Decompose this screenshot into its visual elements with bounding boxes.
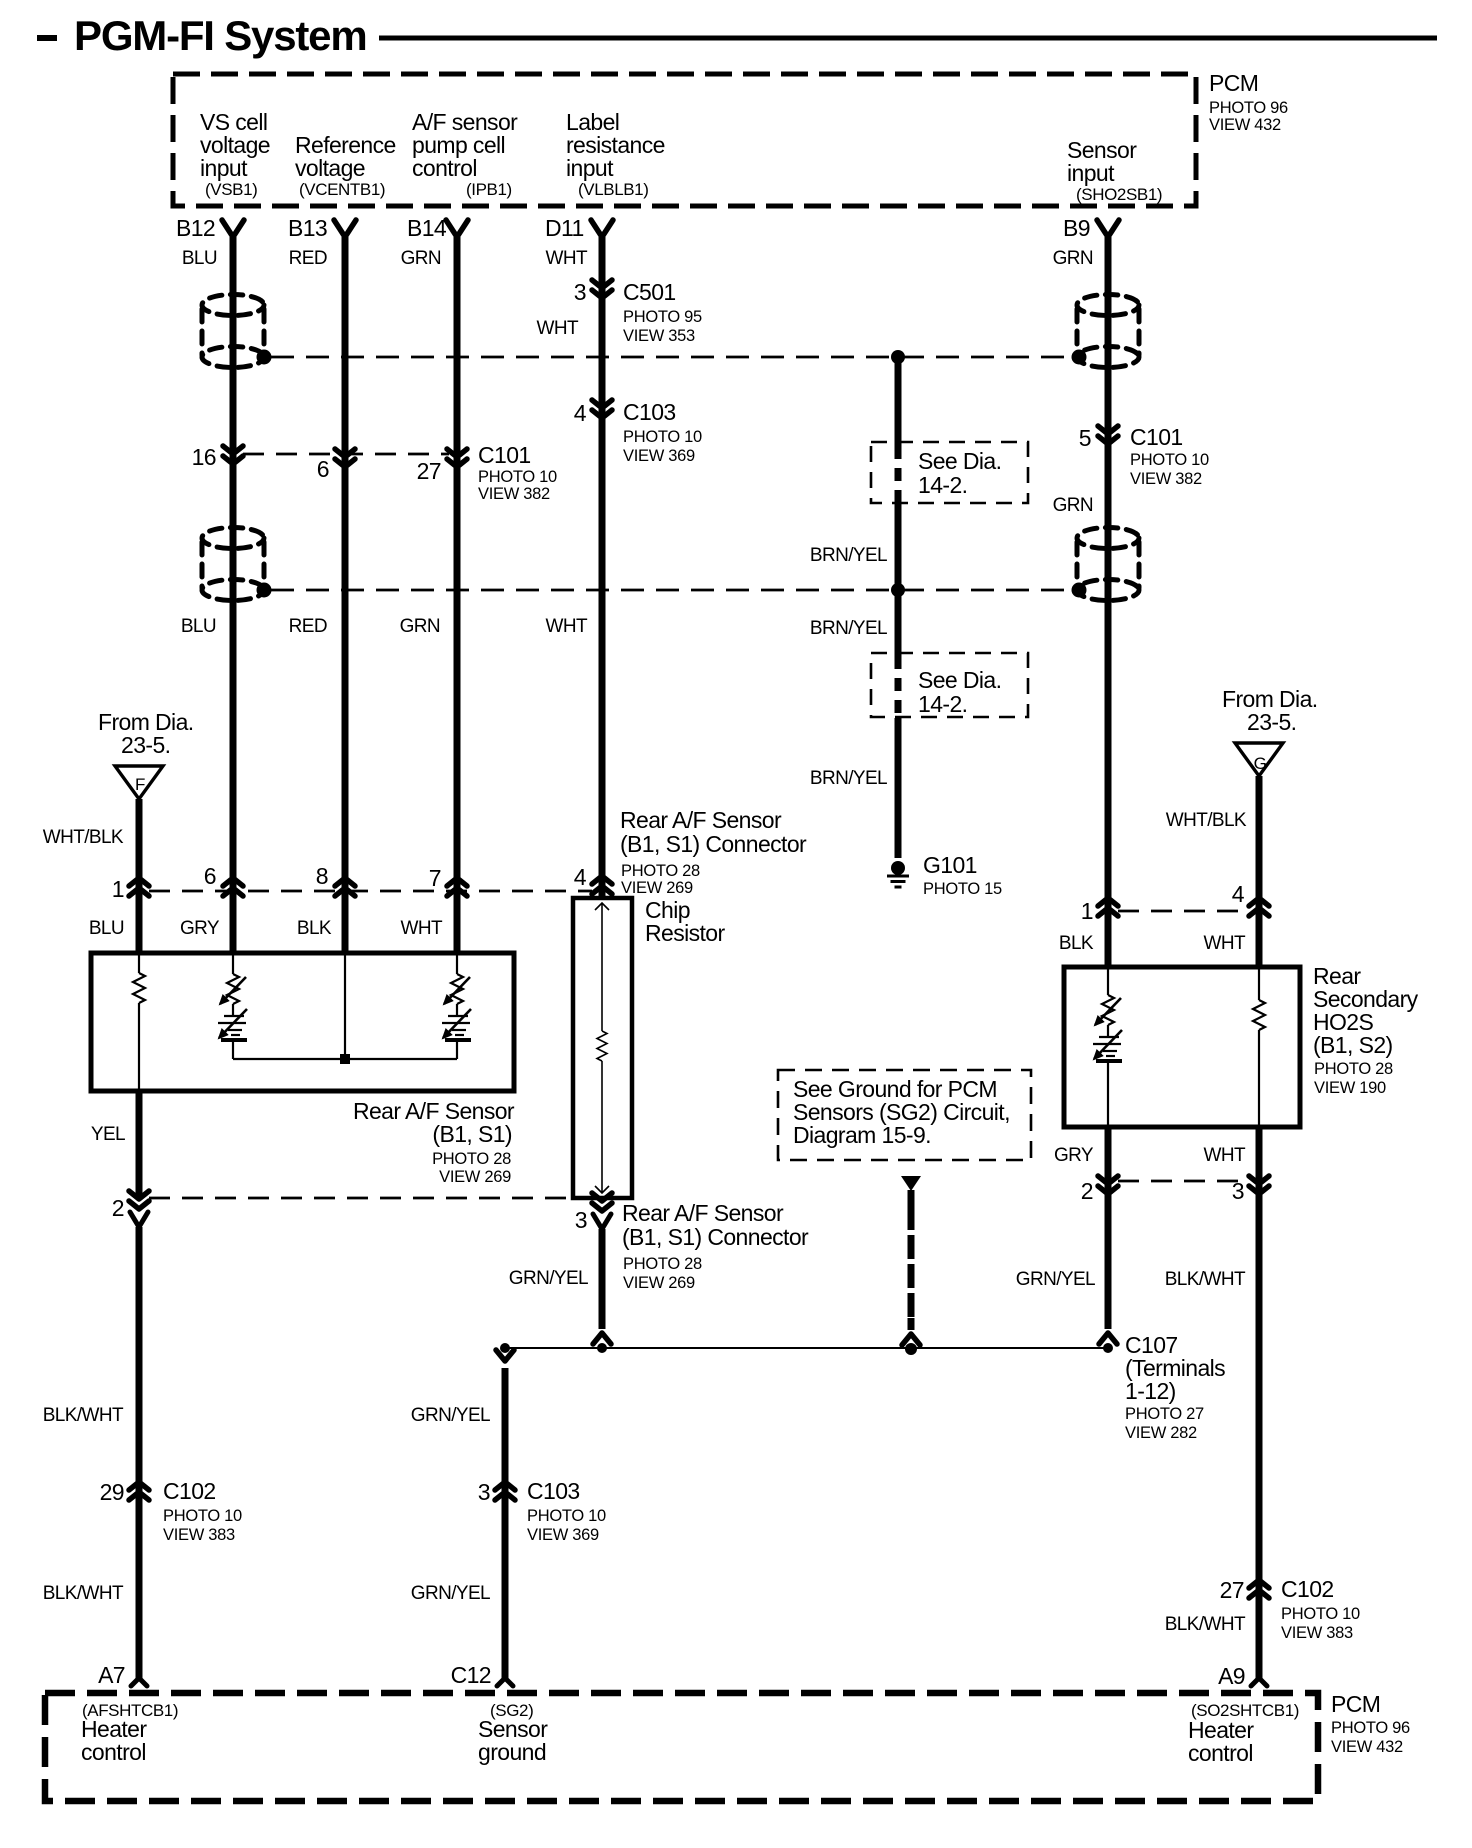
- svg-text:23-5.: 23-5.: [1247, 709, 1296, 735]
- connector pin 7: [429, 865, 467, 896]
- svg-text:16: 16: [192, 444, 216, 470]
- wire B13 RED (PCM to sensor): [342, 237, 349, 953]
- svg-text:BLK/WHT: BLK/WHT: [1165, 1269, 1246, 1290]
- svg-text:1: 1: [1081, 898, 1093, 924]
- wire B14 GRN (PCM to sensor): [454, 237, 461, 953]
- svg-text:C12: C12: [451, 1662, 491, 1688]
- junction node (sensor ground drop): [500, 1343, 510, 1353]
- svg-text:RED: RED: [289, 248, 327, 269]
- svg-text:BLU: BLU: [181, 616, 216, 637]
- Rear A/F Sensor box: [91, 953, 514, 1091]
- chip resistor element: [595, 903, 609, 1193]
- svg-text:1: 1: [112, 876, 124, 902]
- svg-text:3: 3: [575, 1207, 587, 1233]
- svg-text:14-2.: 14-2.: [918, 472, 967, 498]
- PCM label (top right): [1209, 70, 1288, 134]
- Rear A/F Sensor connector dashed link (pins 2,3): [149, 1197, 592, 1200]
- svg-text:PHOTO 28: PHOTO 28: [432, 1150, 511, 1168]
- junction node (BRN/YEL tap lower): [891, 583, 905, 597]
- svg-text:VIEW 369: VIEW 369: [527, 1526, 599, 1544]
- svg-text:voltage: voltage: [295, 155, 365, 181]
- svg-text:(VLBLB1): (VLBLB1): [578, 180, 649, 199]
- connector C101 label: [478, 442, 557, 503]
- pin label VS cell voltage input (VSB1): [200, 109, 270, 199]
- svg-text:BLU: BLU: [182, 248, 217, 269]
- svg-text:PHOTO 10: PHOTO 10: [163, 1507, 242, 1525]
- svg-text:7: 7: [429, 865, 441, 891]
- svg-text:VIEW 190: VIEW 190: [1314, 1079, 1386, 1097]
- wire from F triangle: [136, 799, 143, 953]
- connector pin 8: [316, 863, 355, 896]
- pin label Reference voltage (VCENTB1): [295, 132, 396, 199]
- svg-text:PHOTO 28: PHOTO 28: [1314, 1060, 1393, 1078]
- HO2S connector dashed link (pins 1,4): [1118, 910, 1249, 913]
- SG2 reference arrow: [901, 1176, 921, 1191]
- svg-text:14-2.: 14-2.: [918, 691, 967, 717]
- connector C107 terminal (GRN/YEL from chip): [593, 1333, 611, 1344]
- connector pin 3 (HO2S): [1232, 1176, 1269, 1204]
- pin label Label resistance input (VLBLB1): [566, 109, 665, 199]
- svg-text:27: 27: [1220, 1577, 1244, 1603]
- svg-text:GRN/YEL: GRN/YEL: [411, 1405, 490, 1426]
- svg-text:YEL: YEL: [91, 1124, 125, 1145]
- svg-text:WHT: WHT: [1204, 1145, 1246, 1166]
- svg-text:PHOTO 10: PHOTO 10: [478, 468, 557, 486]
- svg-text:BLK/WHT: BLK/WHT: [43, 1405, 124, 1426]
- svg-text:WHT: WHT: [537, 318, 579, 339]
- connector C107 terminal (GRN/YEL HO2S): [1099, 1333, 1117, 1344]
- wire BLK/WHT (pin2 to A7): [136, 1227, 143, 1676]
- svg-text:ground: ground: [478, 1739, 546, 1765]
- svg-text:VIEW 282: VIEW 282: [1125, 1424, 1197, 1442]
- svg-text:BLK/WHT: BLK/WHT: [43, 1583, 124, 1604]
- svg-text:1-12): 1-12): [1125, 1378, 1176, 1404]
- connector C101 pin 16: [192, 444, 243, 470]
- svg-text:(SHO2SB1): (SHO2SB1): [1076, 185, 1162, 204]
- svg-text:GRN/YEL: GRN/YEL: [1016, 1269, 1095, 1290]
- pin label (SG2) Sensor ground: [478, 1701, 548, 1765]
- wire B12 BLU (PCM to sensor): [230, 237, 237, 953]
- svg-text:G101: G101: [923, 852, 977, 878]
- svg-text:WHT: WHT: [1204, 933, 1246, 954]
- pump cell (pin7 leg, variable resistor + cell): [442, 955, 471, 1059]
- svg-text:control: control: [81, 1739, 146, 1765]
- svg-text:27: 27: [417, 458, 441, 484]
- pin terminal B14: [446, 220, 468, 237]
- svg-text:BLU: BLU: [89, 918, 124, 939]
- Rear Secondary HO2S box: [1064, 967, 1300, 1127]
- noise suppressor cylinder (B12 upper): [202, 295, 272, 368]
- connector pin 6: [204, 863, 243, 896]
- svg-text:WHT/BLK: WHT/BLK: [43, 827, 124, 848]
- ground G101: [887, 861, 909, 887]
- wire from G triangle: [1256, 776, 1263, 967]
- svg-text:VIEW 383: VIEW 383: [1281, 1624, 1353, 1642]
- pin label (SO2SHTCB1) Heater control: [1188, 1701, 1299, 1766]
- svg-text:GRN: GRN: [401, 248, 441, 269]
- wire GRN/YEL (HO2S pin2 to C107): [1105, 1196, 1112, 1329]
- svg-text:C103: C103: [527, 1478, 580, 1504]
- svg-text:VIEW 382: VIEW 382: [1130, 470, 1202, 488]
- svg-text:GRY: GRY: [180, 918, 220, 939]
- connector C107 terminal (SG2): [902, 1334, 920, 1345]
- internal junction node: [340, 1054, 350, 1064]
- svg-text:PHOTO 10: PHOTO 10: [623, 428, 702, 446]
- svg-text:GRN: GRN: [400, 616, 440, 637]
- svg-text:F: F: [135, 775, 145, 794]
- SG2 dashed wire: [908, 1190, 915, 1330]
- svg-text:A7: A7: [98, 1662, 125, 1688]
- svg-text:VIEW 269: VIEW 269: [623, 1274, 695, 1292]
- svg-text:input: input: [200, 155, 248, 181]
- junction node (SG2 dashed): [905, 1343, 917, 1355]
- svg-text:2: 2: [1081, 1178, 1093, 1204]
- noise suppressor cylinder (B12 lower): [202, 528, 272, 601]
- svg-text:(B1, S1): (B1, S1): [432, 1121, 512, 1147]
- svg-text:WHT/BLK: WHT/BLK: [1166, 810, 1247, 831]
- Rear A/F Sensor (B1, S1) label: [353, 1098, 515, 1186]
- shield link dashed line (upper): [271, 356, 1072, 359]
- title rule: [379, 36, 1437, 41]
- svg-text:GRN: GRN: [1053, 495, 1093, 516]
- noise suppressor cylinder (B9 upper): [1072, 295, 1140, 368]
- svg-text:C501: C501: [623, 279, 676, 305]
- svg-text:PHOTO 95: PHOTO 95: [623, 308, 702, 326]
- See Dia. 14-2. box (lower): [871, 653, 1028, 717]
- svg-text:8: 8: [316, 863, 328, 889]
- wire GRN/YEL (C107 to C12): [502, 1368, 509, 1676]
- svg-text:PHOTO 96: PHOTO 96: [1209, 99, 1288, 117]
- svg-text:PHOTO 28: PHOTO 28: [621, 862, 700, 880]
- svg-text:GRN: GRN: [1053, 248, 1093, 269]
- svg-text:29: 29: [100, 1479, 124, 1505]
- svg-text:PHOTO 15: PHOTO 15: [923, 880, 1002, 898]
- connector C103 pin 4: [574, 399, 702, 465]
- svg-text:B13: B13: [288, 215, 327, 241]
- shield link dashed line (lower): [271, 589, 1072, 592]
- wire YEL (sensor to pin2): [136, 1091, 143, 1196]
- HO2S heater element (resistor): [1253, 969, 1265, 1127]
- svg-text:VIEW 382: VIEW 382: [478, 485, 550, 503]
- svg-text:6: 6: [204, 863, 216, 889]
- svg-text:control: control: [1188, 1740, 1253, 1766]
- sensor cell (pin6 leg, variable resistor + cell): [218, 955, 247, 1059]
- svg-text:BLK: BLK: [1059, 933, 1094, 954]
- svg-text:(IPB1): (IPB1): [466, 180, 512, 199]
- svg-text:PHOTO 28: PHOTO 28: [623, 1255, 702, 1273]
- pin terminal B12: [222, 220, 244, 237]
- svg-text:2: 2: [112, 1195, 124, 1221]
- wire BLK/WHT (HO2S pin3 to A9): [1256, 1196, 1263, 1676]
- svg-text:WHT: WHT: [401, 918, 443, 939]
- svg-text:PGM-FI System: PGM-FI System: [74, 12, 366, 59]
- svg-text:VIEW 383: VIEW 383: [163, 1526, 235, 1544]
- pin terminal D11: [591, 220, 613, 237]
- From Dia. 23-5. label (right): [1222, 686, 1318, 735]
- terminal C12: [451, 1662, 513, 1688]
- common leg (pin8): [344, 955, 346, 1059]
- svg-text:D11: D11: [545, 215, 584, 241]
- svg-text:PCM: PCM: [1209, 70, 1258, 96]
- pin label A/F sensor pump cell control (IPB1): [412, 109, 518, 199]
- svg-text:B14: B14: [407, 215, 447, 241]
- svg-text:C101: C101: [1130, 424, 1183, 450]
- svg-text:4: 4: [574, 400, 587, 426]
- svg-text:WHT: WHT: [546, 248, 588, 269]
- connector C103 pin 3 (bottom): [478, 1478, 606, 1544]
- Chip Resistor box: [573, 898, 632, 1198]
- junction node (GRN/YEL right): [1103, 1343, 1113, 1353]
- terminal A7: [98, 1662, 147, 1688]
- svg-text:3: 3: [478, 1479, 490, 1505]
- svg-text:6: 6: [317, 456, 329, 482]
- connector pin 4 (HO2S): [1232, 881, 1269, 916]
- wire WHT (HO2S to pin3): [1256, 1127, 1263, 1196]
- svg-text:4: 4: [1232, 881, 1245, 907]
- connector pin 2: [112, 1191, 149, 1227]
- connector C101 pin 27: [417, 449, 467, 484]
- svg-text:4: 4: [574, 864, 587, 890]
- connector pin 3 (chip resistor out): [575, 1193, 612, 1233]
- svg-text:B12: B12: [176, 215, 215, 241]
- svg-text:GRN/YEL: GRN/YEL: [509, 1268, 588, 1289]
- svg-text:RED: RED: [289, 616, 327, 637]
- connector pin 1: [112, 876, 149, 902]
- ground G101 label: [923, 852, 1002, 898]
- svg-text:VIEW 269: VIEW 269: [439, 1168, 511, 1186]
- PCM label (bottom right): [1331, 1691, 1410, 1756]
- connector pin 1 (HO2S): [1081, 898, 1118, 924]
- svg-text:3: 3: [1232, 1178, 1244, 1204]
- svg-text:GRN/YEL: GRN/YEL: [411, 1583, 490, 1604]
- svg-text:GRY: GRY: [1054, 1145, 1094, 1166]
- connector C102 pin 29: [100, 1478, 242, 1544]
- svg-text:VIEW 269: VIEW 269: [621, 879, 693, 897]
- svg-text:PHOTO 27: PHOTO 27: [1125, 1405, 1204, 1423]
- connector C101 pin 6: [317, 449, 355, 482]
- svg-text:Rear A/F Sensor: Rear A/F Sensor: [620, 807, 782, 833]
- svg-text:PHOTO 10: PHOTO 10: [1130, 451, 1209, 469]
- HO2S sensor cell (variable resistor + cell): [1093, 969, 1122, 1127]
- PCM box (top): [173, 74, 1196, 206]
- svg-text:PHOTO 10: PHOTO 10: [1281, 1605, 1360, 1623]
- svg-text:control: control: [412, 155, 477, 181]
- connector C101 dashed link: [243, 453, 449, 456]
- svg-text:Rear A/F Sensor: Rear A/F Sensor: [622, 1200, 784, 1226]
- wire GRY (HO2S to pin2): [1105, 1127, 1112, 1196]
- svg-text:C102: C102: [163, 1478, 216, 1504]
- off-page triangle G: [1235, 743, 1283, 776]
- connector pin 4: [574, 864, 612, 894]
- svg-text:input: input: [1067, 160, 1115, 186]
- svg-text:Diagram 15-9.: Diagram 15-9.: [793, 1122, 931, 1148]
- svg-text:(VCENTB1): (VCENTB1): [299, 180, 385, 199]
- svg-text:BRN/YEL: BRN/YEL: [810, 768, 887, 789]
- svg-text:5: 5: [1079, 425, 1091, 451]
- svg-text:G: G: [1254, 754, 1267, 773]
- svg-text:PHOTO 10: PHOTO 10: [527, 1507, 606, 1525]
- connector C102 pin 27: [1220, 1576, 1360, 1642]
- svg-text:WHT: WHT: [546, 616, 588, 637]
- svg-text:(VSB1): (VSB1): [205, 180, 257, 199]
- svg-text:VIEW 369: VIEW 369: [623, 447, 695, 465]
- HO2S connector dashed link (pins 2,3): [1118, 1180, 1249, 1183]
- connector C101 pin 5 (B9): [1079, 424, 1209, 488]
- svg-text:C103: C103: [623, 399, 676, 425]
- svg-text:Resistor: Resistor: [645, 920, 725, 946]
- wire D11 WHT (PCM to chip resistor): [599, 237, 606, 898]
- wire GRN/YEL (chip resistor to C107): [599, 1229, 606, 1329]
- Chip Resistor label: [645, 897, 725, 946]
- From Dia. 23-5. label (left): [98, 709, 194, 758]
- svg-text:BRN/YEL: BRN/YEL: [810, 545, 887, 566]
- Rear A/F Sensor (B1, S1) Connector label (lower): [622, 1200, 809, 1292]
- See Ground for PCM Sensors note box: [778, 1070, 1031, 1160]
- svg-text:PHOTO 96: PHOTO 96: [1331, 1719, 1410, 1737]
- C107 bus wire: [505, 1347, 1108, 1349]
- pin label (AFSHTCB1) Heater control: [81, 1701, 178, 1765]
- junction node (BRN/YEL tap upper): [891, 350, 905, 364]
- pin terminal B13: [334, 220, 356, 237]
- svg-text:BLK: BLK: [297, 918, 332, 939]
- pin label Sensor input (SHO2SB1): [1067, 137, 1162, 204]
- connector C107 terminal (sensor ground): [496, 1350, 514, 1361]
- svg-text:VIEW 432: VIEW 432: [1331, 1738, 1403, 1756]
- connector C501 pin 3: [574, 279, 702, 345]
- pin terminal B9: [1097, 220, 1119, 237]
- svg-text:BLK/WHT: BLK/WHT: [1165, 1614, 1246, 1635]
- svg-text:input: input: [566, 155, 614, 181]
- svg-text:VIEW 432: VIEW 432: [1209, 116, 1281, 134]
- svg-text:3: 3: [574, 279, 586, 305]
- svg-text:PCM: PCM: [1331, 1691, 1380, 1717]
- svg-text:See Dia.: See Dia.: [918, 448, 1001, 474]
- svg-text:(B1, S1) Connector: (B1, S1) Connector: [620, 831, 807, 857]
- off-page triangle F: [115, 766, 163, 799]
- wire BRN/YEL ground drop: [895, 357, 902, 858]
- svg-text:23-5.: 23-5.: [121, 732, 170, 758]
- svg-text:B9: B9: [1063, 215, 1090, 241]
- heater element (resistor, pin1 leg): [133, 955, 145, 1091]
- svg-text:VIEW 353: VIEW 353: [623, 327, 695, 345]
- See Dia. 14-2. box (upper): [871, 442, 1028, 503]
- internal bus wire: [233, 1058, 457, 1060]
- title dash: [37, 35, 57, 41]
- noise suppressor cylinder (B9 lower): [1072, 528, 1140, 601]
- svg-text:BRN/YEL: BRN/YEL: [810, 618, 887, 639]
- wire B9 GRN (PCM to HO2S): [1105, 237, 1112, 967]
- svg-text:See Dia.: See Dia.: [918, 667, 1001, 693]
- Rear A/F Sensor connector dashed link (pins 1,6,8,7,4): [149, 890, 592, 893]
- svg-text:A9: A9: [1218, 1663, 1245, 1689]
- junction node (chip resistor): [597, 1343, 607, 1353]
- connector pin 2 (HO2S): [1081, 1176, 1118, 1204]
- terminal A9: [1218, 1663, 1267, 1689]
- svg-text:C101: C101: [478, 442, 531, 468]
- Rear Secondary HO2S (B1, S2) label: [1313, 963, 1419, 1097]
- connector C107 label: [1125, 1332, 1225, 1442]
- PCM box (bottom): [45, 1693, 1318, 1801]
- svg-text:(B1, S2): (B1, S2): [1313, 1032, 1393, 1058]
- svg-text:C102: C102: [1281, 1576, 1334, 1602]
- Rear A/F Sensor (B1, S1) Connector label (upper): [620, 807, 807, 897]
- svg-text:(B1, S1) Connector: (B1, S1) Connector: [622, 1224, 809, 1250]
